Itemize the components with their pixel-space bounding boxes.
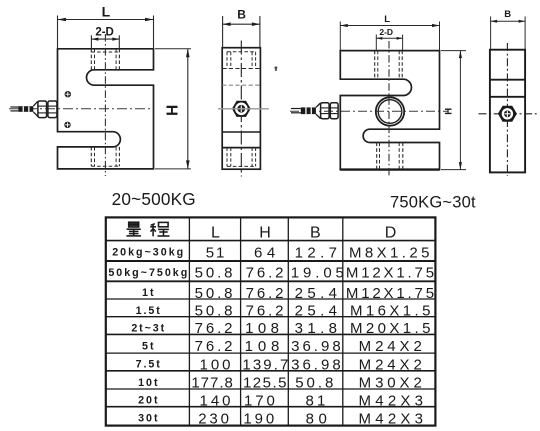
left side view slot B lines bbox=[222, 132, 260, 148]
svg-text:108: 108 bbox=[245, 338, 284, 355]
svg-text:B: B bbox=[310, 225, 321, 242]
centerline horizontal left figure bbox=[9, 108, 154, 110]
right front bottom threaded hole (hidden lines) bbox=[377, 143, 403, 170]
right front view body outline bbox=[340, 51, 439, 170]
left side view hidden slot line light bbox=[222, 84, 260, 86]
table column separators bbox=[189, 217, 342, 425]
svg-text:B: B bbox=[504, 9, 511, 20]
dimension H right: extension lines bbox=[441, 51, 466, 170]
svg-text:12.7: 12.7 bbox=[295, 244, 342, 261]
cable right figure bbox=[291, 109, 301, 113]
left front view body outline bbox=[58, 49, 154, 169]
right front vertical centerline bbox=[388, 41, 390, 176]
svg-text:L: L bbox=[384, 14, 390, 25]
svg-text:50.8: 50.8 bbox=[195, 285, 236, 302]
dimension H right: dim line with arrows bbox=[459, 51, 462, 170]
svg-text:30t: 30t bbox=[138, 413, 159, 425]
svg-text:M24X2: M24X2 bbox=[359, 338, 426, 355]
svg-text:177.8: 177.8 bbox=[191, 375, 234, 392]
dimension 2-D left: dim line with arrows bbox=[91, 38, 119, 41]
svg-text:125.5: 125.5 bbox=[243, 375, 288, 392]
table column D values bbox=[346, 244, 437, 427]
svg-text:M20X1.5: M20X1.5 bbox=[350, 320, 434, 337]
right front view thick bottom edge bbox=[340, 168, 439, 170]
gland nut 2 right figure bbox=[330, 103, 338, 119]
svg-text:76.2: 76.2 bbox=[246, 303, 287, 320]
right side view body bbox=[490, 50, 525, 173]
left front top threaded hole (hidden lines) bbox=[91, 49, 119, 70]
label 2-D left bbox=[95, 26, 114, 38]
svg-text:M24X2: M24X2 bbox=[359, 356, 426, 373]
left side view hidden hole bottom bbox=[227, 148, 256, 167]
gland taper left figure bbox=[33, 101, 38, 116]
dimension B left: dim line with arrows bbox=[223, 22, 260, 26]
artifact mark bbox=[275, 67, 278, 71]
right side view horizontal centerline bbox=[479, 113, 538, 115]
table row separators bbox=[106, 241, 436, 407]
right front top threaded hole (hidden lines) bbox=[375, 51, 403, 80]
svg-text:20t: 20t bbox=[138, 395, 159, 407]
left side view hidden slot line dark bbox=[222, 68, 260, 70]
table column 1 (range) values bbox=[108, 247, 189, 425]
svg-text:2-D: 2-D bbox=[379, 27, 393, 37]
svg-text:H: H bbox=[164, 105, 181, 116]
label H left bbox=[164, 105, 181, 116]
table column L values bbox=[191, 244, 235, 427]
svg-text:2-D: 2-D bbox=[95, 26, 114, 38]
svg-text:139.7: 139.7 bbox=[242, 356, 290, 373]
header glyph 量 (drawn strokes) bbox=[126, 222, 141, 236]
svg-text:H: H bbox=[443, 108, 454, 115]
svg-text:140: 140 bbox=[199, 392, 233, 409]
svg-text:M42X3: M42X3 bbox=[359, 392, 428, 409]
svg-text:76.2: 76.2 bbox=[195, 320, 236, 337]
label L left bbox=[102, 4, 111, 20]
svg-text:L: L bbox=[102, 4, 111, 20]
svg-text:76.2: 76.2 bbox=[195, 338, 236, 355]
svg-text:81: 81 bbox=[305, 392, 328, 409]
svg-text:5t: 5t bbox=[142, 340, 156, 352]
svg-text:76.2: 76.2 bbox=[246, 265, 287, 282]
table column B values bbox=[291, 244, 348, 427]
cable left figure bbox=[10, 107, 18, 111]
screw 2 bbox=[64, 122, 70, 128]
svg-text:36.98: 36.98 bbox=[291, 356, 344, 373]
screw 1 bbox=[65, 91, 71, 97]
svg-text:108: 108 bbox=[245, 320, 283, 337]
svg-text:M30X2: M30X2 bbox=[359, 375, 426, 392]
svg-text:20~500KG: 20~500KG bbox=[112, 189, 196, 209]
dimension 2-D right: extension lines bbox=[376, 35, 402, 51]
svg-text:50.8: 50.8 bbox=[195, 265, 236, 282]
svg-text:170: 170 bbox=[244, 392, 278, 409]
dimension B right: dim line with arrows bbox=[491, 20, 525, 23]
svg-text:D: D bbox=[385, 225, 397, 242]
svg-text:L: L bbox=[211, 225, 220, 242]
left side view hidden hole top bbox=[227, 52, 256, 69]
dimension B left: extension lines bbox=[223, 16, 260, 48]
svg-text:M12X1.75: M12X1.75 bbox=[346, 265, 437, 282]
svg-text:19.05: 19.05 bbox=[291, 265, 348, 282]
svg-text:750KG~30t: 750KG~30t bbox=[390, 193, 476, 211]
svg-text:50kg~750kg: 50kg~750kg bbox=[108, 267, 189, 279]
dimension L right: extension lines bbox=[340, 22, 439, 51]
left front vertical centerline bbox=[104, 34, 106, 176]
table column H values bbox=[242, 244, 290, 427]
svg-text:1t: 1t bbox=[142, 287, 156, 299]
label B right bbox=[504, 9, 511, 20]
svg-text:B: B bbox=[237, 8, 246, 22]
svg-text:1.5t: 1.5t bbox=[136, 305, 162, 317]
caption 750KG~30t bbox=[390, 193, 476, 211]
left front bottom threaded hole (hidden lines) bbox=[91, 147, 119, 166]
label L right bbox=[384, 14, 390, 25]
dimension L right: dim line with arrows bbox=[340, 24, 439, 27]
label 2-D right bbox=[379, 27, 393, 37]
svg-text:7.5t: 7.5t bbox=[136, 359, 162, 371]
caption 20~500KG bbox=[112, 189, 196, 209]
cable grip blocks left figure bbox=[18, 106, 33, 112]
svg-text:31.8: 31.8 bbox=[295, 320, 342, 337]
gland nut 2 left figure bbox=[48, 101, 57, 118]
gland nut 1 left figure bbox=[38, 101, 47, 118]
svg-text:100: 100 bbox=[199, 356, 233, 373]
svg-text:10t: 10t bbox=[138, 377, 159, 389]
dimension L left: dim line with arrows bbox=[58, 18, 154, 22]
dimension B right: extension lines bbox=[491, 17, 525, 50]
svg-text:M12X1.75: M12X1.75 bbox=[346, 285, 437, 302]
cable grip blocks right figure bbox=[301, 107, 316, 114]
svg-text:20kg~30kg: 20kg~30kg bbox=[112, 247, 185, 259]
header labels L H B D bbox=[211, 225, 396, 242]
right side view hex gland nut bbox=[498, 106, 517, 122]
header glyph 程 (drawn strokes) bbox=[150, 222, 169, 236]
svg-text:36.98: 36.98 bbox=[291, 338, 344, 355]
svg-text:51: 51 bbox=[206, 244, 227, 261]
svg-text:190: 190 bbox=[243, 410, 277, 427]
svg-text:H: H bbox=[259, 225, 271, 242]
label B left bbox=[237, 8, 246, 22]
svg-text:2t~3t: 2t~3t bbox=[131, 322, 166, 334]
dimension 2-D right: dim line with arrows bbox=[376, 37, 402, 40]
svg-text:80: 80 bbox=[306, 410, 332, 427]
svg-text:50.8: 50.8 bbox=[295, 375, 336, 392]
svg-text:50.8: 50.8 bbox=[195, 303, 236, 320]
centerline horizontal right front view bbox=[290, 110, 448, 112]
left side view vertical centerline bbox=[240, 41, 242, 177]
svg-text:230: 230 bbox=[198, 410, 231, 427]
right front center hole (double circle) bbox=[376, 97, 404, 125]
svg-text:25.4: 25.4 bbox=[295, 303, 342, 320]
dimension H left: extension lines bbox=[155, 49, 191, 169]
label H right bbox=[443, 108, 454, 115]
svg-text:25.4: 25.4 bbox=[295, 285, 342, 302]
right side view slot lines bbox=[490, 80, 525, 97]
dimension H left: dim line with arrows bbox=[186, 49, 190, 169]
gland taper right figure bbox=[316, 103, 321, 119]
svg-text:M16X1.5: M16X1.5 bbox=[350, 303, 434, 320]
right side view vertical centerline bbox=[506, 43, 508, 176]
dimension L left: extension lines bbox=[58, 16, 154, 49]
svg-text:M42X3: M42X3 bbox=[359, 410, 428, 427]
left side view horizontal centerline (gray over) bbox=[218, 108, 269, 110]
svg-text:64: 64 bbox=[254, 244, 280, 261]
left side view body bbox=[222, 48, 260, 170]
dimension 2-D left: extension lines bbox=[91, 35, 119, 49]
left side view hex gland nut bbox=[232, 101, 251, 117]
gland nut 1 right figure bbox=[321, 103, 330, 119]
svg-text:M8X1.25: M8X1.25 bbox=[349, 244, 433, 261]
table outer border bbox=[106, 217, 436, 425]
svg-text:76.2: 76.2 bbox=[246, 285, 287, 302]
